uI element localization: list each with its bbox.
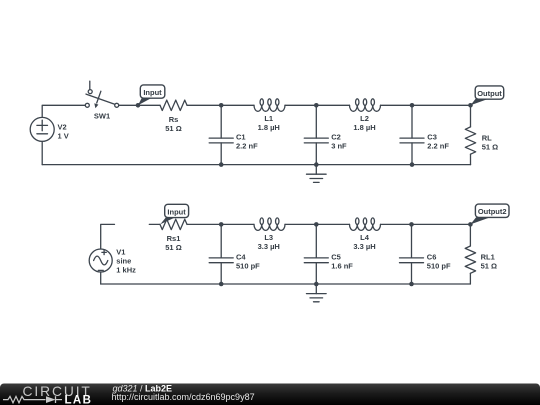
node C6 bottom junction xyxy=(409,282,414,287)
svg-text:V1: V1 xyxy=(116,248,125,257)
svg-text:51 Ω: 51 Ω xyxy=(481,261,497,270)
svg-text:2.2 nF: 2.2 nF xyxy=(427,142,449,151)
node C5 bottom junction xyxy=(314,282,319,287)
voltage source V1 (sine) xyxy=(89,248,136,275)
svg-text:L3: L3 xyxy=(264,233,273,242)
svg-text:L1: L1 xyxy=(264,114,273,123)
resistor Rs xyxy=(160,100,187,133)
ground top circuit xyxy=(307,165,327,183)
node Output2 junction dot xyxy=(468,222,473,227)
logo resistor-diode icon xyxy=(3,396,62,403)
svg-text:L2: L2 xyxy=(360,114,369,123)
svg-text:51 Ω: 51 Ω xyxy=(165,124,181,133)
wire Rs to C1 node to L1 xyxy=(187,104,254,106)
resistor RL xyxy=(465,105,498,164)
inductor L1 xyxy=(254,99,285,132)
svg-text:2.2 nF: 2.2 nF xyxy=(236,142,258,151)
node Output junction dot xyxy=(468,103,473,108)
wire V1 bottom lead xyxy=(100,272,102,284)
svg-text:3.3 µH: 3.3 µH xyxy=(353,242,375,251)
svg-text:C5: C5 xyxy=(331,252,341,261)
inductor L3 xyxy=(254,218,285,251)
svg-text:C3: C3 xyxy=(427,133,437,142)
svg-text:RL: RL xyxy=(482,133,492,142)
wire L3 to C5 node to L4 xyxy=(285,223,350,225)
svg-text:C1: C1 xyxy=(236,133,246,142)
svg-text:V2: V2 xyxy=(58,122,67,131)
svg-text:51 Ω: 51 Ω xyxy=(165,243,181,252)
capacitor C5 xyxy=(304,224,353,284)
node C6 top junction xyxy=(409,222,414,227)
svg-text:Output: Output xyxy=(477,89,502,98)
node C4 top junction xyxy=(219,222,224,227)
node C4 bottom junction xyxy=(219,282,224,287)
wire Rs1 to C4 node to L3 xyxy=(187,223,254,225)
wire bottom rail top circuit xyxy=(42,164,470,166)
svg-text:51 Ω: 51 Ω xyxy=(482,142,498,151)
node Input junction dot xyxy=(136,103,141,108)
capacitor C4 xyxy=(209,224,260,284)
wire switch to input node xyxy=(119,104,160,106)
ground bottom circuit xyxy=(307,284,327,302)
node C1 top junction xyxy=(219,103,224,108)
svg-text:RL1: RL1 xyxy=(481,252,495,261)
capacitor C1 xyxy=(209,105,258,164)
svg-text:Input: Input xyxy=(167,207,186,216)
svg-text:http://circuitlab.com/cdz6n69p: http://circuitlab.com/cdz6n69pc9y87 xyxy=(112,392,255,402)
svg-text:sine: sine xyxy=(116,257,131,266)
wire L4 to C6 node to RL1 xyxy=(381,223,471,225)
svg-text:C6: C6 xyxy=(427,252,437,261)
svg-text:SW1: SW1 xyxy=(94,112,110,121)
svg-text:1 kHz: 1 kHz xyxy=(116,266,136,275)
voltage source V2 xyxy=(30,117,69,141)
flag Input xyxy=(138,85,165,105)
wire L1 to C2 node to L2 xyxy=(285,104,350,106)
node C3 top junction xyxy=(410,103,415,108)
node C3 bottom junction xyxy=(410,162,415,167)
node C5 top junction xyxy=(314,222,319,227)
svg-text:L4: L4 xyxy=(360,233,370,242)
svg-text:C2: C2 xyxy=(331,133,341,142)
svg-text:1.6 nF: 1.6 nF xyxy=(331,261,353,270)
svg-text:510 pF: 510 pF xyxy=(236,261,260,270)
capacitor C2 xyxy=(304,105,347,164)
wire L2 to C3 node to RL xyxy=(381,104,471,106)
logo CircuitLab wordmark xyxy=(23,384,93,405)
svg-text:LAB: LAB xyxy=(65,395,93,405)
footer title text xyxy=(112,383,255,402)
flag Input (bottom) xyxy=(160,204,188,224)
svg-text:1.8 µH: 1.8 µH xyxy=(258,123,280,132)
flag Output2 xyxy=(470,204,509,224)
wire V2 bottom lead xyxy=(41,141,43,164)
node C1 bottom junction xyxy=(219,162,224,167)
inductor L2 xyxy=(350,99,381,132)
resistor Rs1 xyxy=(160,219,187,252)
wire V2 top lead xyxy=(42,105,85,117)
svg-text:510 pF: 510 pF xyxy=(427,261,451,270)
svg-text:1.8 µH: 1.8 µH xyxy=(353,123,375,132)
svg-text:1 V: 1 V xyxy=(58,131,69,140)
wire V1 top lead (open ended) xyxy=(101,224,115,249)
wire into Rs1 xyxy=(149,223,160,225)
resistor RL1 xyxy=(465,224,497,284)
wire bottom rail bottom circuit xyxy=(101,283,471,285)
svg-text:Output2: Output2 xyxy=(478,207,507,216)
capacitor C3 xyxy=(400,105,449,164)
svg-text:Rs: Rs xyxy=(169,115,179,124)
svg-text:3 nF: 3 nF xyxy=(331,142,347,151)
svg-text:3.3 µH: 3.3 µH xyxy=(258,242,280,251)
svg-text:Rs1: Rs1 xyxy=(167,234,181,243)
svg-text:Input: Input xyxy=(143,88,162,97)
capacitor C6 xyxy=(400,224,451,284)
switch SW1 xyxy=(85,81,118,121)
node C2 bottom junction xyxy=(314,162,319,167)
node C2 top junction xyxy=(314,103,319,108)
inductor L4 xyxy=(350,218,381,251)
svg-text:C4: C4 xyxy=(236,252,246,261)
flag Output xyxy=(471,86,504,105)
